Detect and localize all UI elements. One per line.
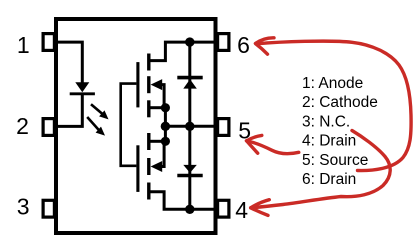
body diode D2 cathode bar [177, 76, 202, 80]
transistor Q1 channel segment top [147, 54, 150, 71]
LED light emission arrow lower [87, 117, 105, 136]
svg-text:5: Source: 5: Source [302, 152, 368, 169]
junction dot Q2 source/body [161, 137, 170, 146]
transistor Q2 body arrow [151, 141, 165, 172]
wire gate bus connecting Q1 and Q2 gates [121, 84, 137, 166]
svg-text:3: 3 [17, 194, 30, 220]
wire common source column [164, 108, 167, 142]
pin 2 box [43, 119, 54, 136]
transistor Q1 body arrow [151, 79, 165, 108]
junction dot Q1 source/body [161, 103, 170, 112]
svg-text:6: Drain: 6: Drain [302, 171, 356, 188]
svg-text:4: Drain: 4: Drain [302, 133, 356, 150]
pin 3 box [43, 200, 54, 217]
svg-text:1: 1 [17, 32, 30, 58]
wire Q2 drain to pin 4 [151, 192, 216, 210]
red annotation arrow to pin 6 [256, 38, 412, 171]
body diode D2 triangle [183, 79, 197, 88]
wire Q1 source lead [151, 106, 166, 109]
wire body diode column [188, 42, 191, 209]
svg-text:1: Anode: 1: Anode [302, 75, 363, 92]
junction dot source column at pin 5 row [161, 122, 170, 131]
svg-text:2: 2 [16, 113, 29, 139]
wire pin 5 (source) [165, 125, 215, 128]
pin 5 box [218, 119, 229, 136]
transistor Q2 channel segment middle [147, 158, 150, 175]
junction dot diode column at pin 4 row [185, 205, 194, 214]
junction dot diode column at pin 6 row [185, 37, 194, 46]
junction dot diode column at pin 5 row [185, 122, 194, 131]
IC package outline [56, 19, 216, 233]
svg-text:4: 4 [235, 197, 248, 223]
pin 1 box [43, 34, 54, 51]
red annotation arrow to pin 4 [251, 131, 391, 216]
body diode D3 cathode bar [177, 174, 202, 178]
LED D1 cathode bar [70, 92, 95, 95]
red annotation arrow to pin 5 [247, 135, 299, 153]
wire Q1 drain to pin 6 [151, 42, 216, 61]
svg-text:6: 6 [237, 32, 250, 58]
transistor Q2 gate bar [136, 145, 139, 192]
transistor Q1 gate bar [136, 62, 139, 107]
svg-text:2: Cathode: 2: Cathode [302, 94, 378, 111]
transistor Q2 channel segment top [147, 133, 150, 150]
transistor Q1 channel segment bottom [147, 100, 150, 117]
wire Q2 source lead [151, 140, 166, 143]
pin 4 box [218, 200, 229, 217]
pin 6 box [218, 34, 229, 51]
svg-text:3: N.C.: 3: N.C. [302, 113, 350, 130]
LED D1 triangle (anode) [75, 82, 89, 92]
wire LED cathode to pin 2 [57, 95, 82, 126]
wire pin1 to LED anode [57, 42, 82, 83]
body diode D3 triangle [183, 165, 197, 173]
transistor Q2 channel segment bottom [147, 183, 150, 200]
transistor Q1 channel segment middle [147, 76, 150, 93]
LED light emission arrow upper [91, 104, 109, 119]
